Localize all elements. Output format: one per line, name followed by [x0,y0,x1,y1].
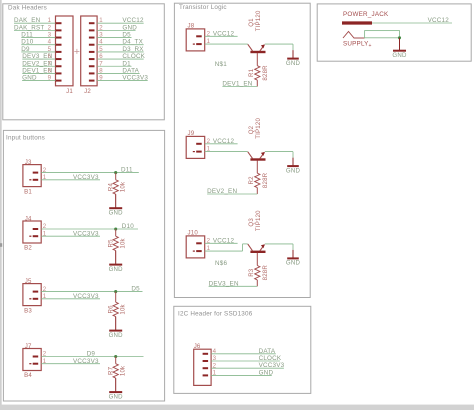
net label DATA [259,348,276,355]
wire VCC3V3 from B1 pin 1 [41,179,100,181]
wire net D9 to J1 pin 5 [21,51,55,53]
svg-text:7: 7 [99,60,103,67]
net label DAK_RST [14,24,44,31]
junction on net D11 [114,171,117,174]
svg-text:DAK_RST: DAK_RST [14,24,44,31]
svg-text:Q1: Q1 [248,18,255,27]
net label D1 [122,60,131,67]
svg-text:828R: 828R [262,65,269,81]
ground below R6 [109,317,124,339]
svg-text:SUPPLY: SUPPLY [343,41,369,48]
svg-text:VCC3V3: VCC3V3 [122,75,148,82]
svg-text:VCC3V3: VCC3V3 [73,174,99,181]
B3 pin number 2 [43,286,47,293]
wire net D11 from B1 pin 2 [41,172,139,174]
connector J6 (4-pin I2C header) [194,343,211,385]
svg-text:D11: D11 [121,166,133,173]
J1 pin number 9 [48,75,52,82]
svg-text:VCC12: VCC12 [213,31,235,38]
frame: POWER_JACK section [317,4,471,61]
svg-text:GND: GND [286,60,301,67]
svg-text:Q3: Q3 [248,218,255,227]
J8 pin number 1 [207,38,211,45]
J1 pin number 7 [48,60,52,67]
connector J9 (2-pin) [186,130,205,158]
J1 pin number 4 [48,39,52,46]
net label VCC12 [213,31,235,38]
J2 pin number 5 [99,46,103,53]
J6 pin number 1 [213,370,217,377]
svg-text:VCC3V3: VCC3V3 [259,362,285,369]
svg-text:GND: GND [22,75,37,82]
svg-text:N$6: N$6 [215,260,227,267]
svg-text:B1: B1 [24,188,32,195]
pushbutton B2 (connector J4) [23,215,41,251]
net label VCC3V3 [73,174,99,181]
power jack J11 name [343,11,389,18]
svg-text:D10: D10 [122,223,134,230]
net name N$1 [215,61,227,68]
svg-text:2: 2 [48,24,52,31]
wire net DEV2_EN to J1 pin 7 [22,65,55,67]
frame: Transistor Logic section [174,3,310,297]
net label VCC3V3 [259,362,285,369]
junction on net D5 [114,290,117,293]
svg-text:GND: GND [109,393,124,400]
svg-text:9: 9 [48,75,52,82]
connector J1 (9-pin header) [55,16,73,95]
wire from J9 pin 1 to Q2 collector [205,151,248,153]
left gray strip [0,0,2,410]
connector J8 (2-pin) [186,23,205,51]
J2 pin number 3 [99,32,103,39]
svg-text:DEV3_EN: DEV3_EN [209,280,239,287]
B2 pin number 2 [43,223,47,230]
wire Q3 emitter to ground [265,244,293,250]
wire net GND from J6 [211,374,272,376]
wire net DEV3_EN [209,285,258,287]
J1 pin number 1 [48,17,52,24]
svg-text:10k: 10k [119,303,126,314]
wire net DEV1_EN to J1 pin 8 [22,72,55,74]
net label DEV3_EN [22,53,52,60]
J2 pin number 1 [99,17,103,24]
svg-text:4: 4 [48,39,52,46]
wire VCC12 from J8 pin 2 [205,35,238,37]
connector J2 (9-pin header) [81,16,97,95]
svg-text:DAK_EN: DAK_EN [14,17,41,24]
svg-text:DATA: DATA [259,348,276,355]
ground at Q1 emitter [286,50,301,67]
net label D9 [21,46,30,53]
wire VCC3V3 from B2 pin 1 [41,235,100,237]
svg-text:7: 7 [48,60,52,67]
wire net D11 to J1 pin 3 [21,37,55,39]
net label D9 [87,350,96,357]
net label VCC3V3 [73,230,99,237]
wire net DAK_RST to J1 pin 2 [14,29,56,31]
svg-text:TIP120: TIP120 [255,210,262,231]
frame: Input buttons section [3,130,164,401]
svg-text:D3_RX: D3_RX [122,46,144,53]
J2 pin number 2 [99,24,103,31]
origin cross between J1 and J2 [74,49,79,54]
svg-text:R2: R2 [248,176,255,185]
svg-text:Input buttons: Input buttons [6,135,45,142]
svg-text:R4: R4 [108,183,115,192]
svg-text:Q2: Q2 [248,125,255,134]
J1 pin number 3 [48,32,52,39]
svg-text:GND: GND [109,266,124,273]
net label CLOCK [122,53,145,60]
svg-text:1: 1 [48,17,52,24]
svg-text:10k: 10k [119,181,126,192]
svg-text:VCC12: VCC12 [213,138,235,145]
net label VCC3V3 [122,75,148,82]
svg-text:4: 4 [99,39,103,46]
B4 pin number 1 [43,358,47,365]
svg-text:N$1: N$1 [215,61,227,68]
net label DEV1_EN [22,67,52,74]
wire VCC12 from J10 pin 2 [205,242,238,244]
net label DATA [122,67,139,74]
ground at Q3 emitter [286,250,301,267]
J8 pin number 2 [207,31,211,38]
resistor R4 10k [108,173,127,195]
resistor R6 10k [108,292,127,317]
net label D11 [121,166,133,173]
net label VCC12 [122,17,144,24]
svg-text:DEV2_EN: DEV2_EN [207,188,237,195]
B1 pin number 2 [43,167,47,174]
net name N$6 [215,260,227,267]
svg-text:D9: D9 [87,350,96,357]
J1 pin number 6 [48,53,52,60]
svg-text:2: 2 [99,24,103,31]
svg-text:R7: R7 [108,366,115,375]
J1 pin number 5 [48,46,52,53]
svg-text:CLOCK: CLOCK [259,355,282,362]
wire net DEV1_EN [222,86,257,88]
B3 pin number 1 [43,293,47,300]
svg-text:TIP120: TIP120 [255,118,262,139]
J2 pin number 8 [99,67,103,74]
svg-text:GND: GND [109,332,124,339]
J2 pin number 4 [99,39,103,46]
svg-text:CLOCK: CLOCK [122,53,145,60]
wire net VCC3V3 from J6 [211,367,284,369]
frame: Dak Headers section [3,4,165,120]
wire from J10 pin 1 to Q3 collector (with jog) [205,244,248,251]
wire net D3_RX from J2 pin 5 [97,51,144,53]
svg-text:B3: B3 [24,307,32,314]
net label GND [259,369,274,376]
ground below R7 [109,378,124,400]
pushbutton B1 (connector J3) [23,159,41,195]
net label D10 [21,39,33,46]
net label VCC12 [428,17,450,24]
svg-text:DEV1_EN: DEV1_EN [222,81,252,88]
wire net VCC3V3 from J2 pin 9 [97,80,148,82]
wire net GND to J1 pin 9 [22,80,55,82]
transistor Q1 TIP120 [248,10,266,52]
svg-text:D5: D5 [131,285,140,292]
wire from J8 pin 1 to Q1 collector [205,43,248,45]
B4 pin number 2 [43,351,47,358]
B2 pin number 1 [43,230,47,237]
svg-text:10k: 10k [119,237,126,248]
net label DAK_EN [14,17,41,24]
net label D10 [122,223,134,230]
svg-text:D10: D10 [21,39,33,46]
svg-text:Transistor Logic: Transistor Logic [179,4,227,11]
svg-text:828R: 828R [262,172,269,188]
svg-text:D4_TX: D4_TX [122,39,143,46]
net label DEV1_EN [222,81,252,88]
ground below R4 [109,194,124,216]
net label VCC12 [213,138,235,145]
net label GND [122,24,137,31]
svg-text:J1: J1 [66,88,73,95]
svg-text:VCC12: VCC12 [428,17,450,24]
wire VCC12 from J9 pin 2 [205,143,238,145]
svg-text:GND: GND [392,52,407,59]
svg-text:GND: GND [259,369,274,376]
svg-text:R5: R5 [108,239,115,248]
resistor R1 828R [248,53,269,87]
net label VCC12 [213,238,235,245]
resistor R7 10k [108,357,127,379]
net label VCC3V3 [73,293,99,300]
net label D3_RX [122,46,144,53]
svg-text:R3: R3 [248,268,255,277]
wire VCC3V3 from B4 pin 1 [41,363,100,365]
svg-text:GND: GND [286,167,301,174]
svg-text:B4: B4 [24,372,32,379]
svg-text:J2: J2 [84,88,91,95]
J2 pin number 9 [99,75,103,82]
wire Q1 emitter to ground [265,44,293,50]
J9 pin number 2 [207,138,211,145]
wire net DAK_EN to J1 pin 1 [14,22,56,24]
wire net D1 from J2 pin 7 [97,65,131,67]
ground at Q2 emitter [286,158,301,175]
connector J10 (2-pin) [186,230,205,258]
svg-text:GND: GND [122,24,137,31]
svg-text:POWER_JACK: POWER_JACK [343,11,389,18]
svg-text:5: 5 [99,46,103,53]
svg-text:6: 6 [48,53,52,60]
pushbutton B4 (connector J7) [23,343,41,379]
svg-text:8: 8 [99,67,103,74]
J2 pin number 6 [99,53,103,60]
svg-text:VCC3V3: VCC3V3 [73,358,99,365]
J10 pin number 1 [207,245,211,252]
svg-text:VCC12: VCC12 [122,17,144,24]
svg-text:GND: GND [109,209,124,216]
svg-text:GND: GND [286,260,301,267]
wire net DATA from J6 [211,353,276,355]
ground at power jack [392,38,407,59]
svg-text:Dak Headers: Dak Headers [8,5,47,12]
B1 pin number 1 [43,174,47,181]
wire net D10 to J1 pin 4 [21,44,55,46]
svg-text:I2C Header for SSD1306: I2C Header for SSD1306 [178,310,253,317]
net label VCC3V3 [73,358,99,365]
transistor Q2 TIP120 [248,118,266,160]
junction at ground node [398,36,401,39]
wire net VCC12 from J2 pin 1 [97,22,144,24]
svg-text:R1: R1 [248,68,255,77]
resistor R5 10k [108,229,127,251]
J1 pin number 2 [48,24,52,31]
ground below R5 [109,251,124,273]
bottom gray strip [0,405,474,410]
net label DEV3_EN [209,280,239,287]
wire net D10 from B2 pin 2 [41,228,138,230]
svg-text:TIP120: TIP120 [255,10,262,31]
svg-text:R6: R6 [108,305,115,314]
svg-text:3: 3 [99,32,103,39]
svg-text:VCC3V3: VCC3V3 [73,230,99,237]
svg-text:1: 1 [99,17,103,24]
net label DEV2_EN [207,188,237,195]
wire net D5 from J2 pin 3 [97,37,131,39]
net label D11 [21,32,33,39]
svg-text:3: 3 [48,32,52,39]
J9 pin number 1 [207,146,211,153]
J10 pin number 2 [207,238,211,245]
net label CLOCK [259,355,282,362]
wire VCC3V3 from B3 pin 1 [41,298,100,300]
svg-text:5: 5 [48,46,52,53]
wire Q2 emitter to ground [265,152,293,158]
transistor Q3 TIP120 [248,210,266,252]
wire loop jack to ground node [365,31,400,38]
resistor R3 828R [248,253,269,286]
svg-text:D9: D9 [21,46,30,53]
pushbutton B3 (connector J5) [23,278,41,314]
wire net D4_TX from J2 pin 4 [97,44,144,46]
wire net CLOCK from J2 pin 6 [97,58,144,60]
net label GND [22,75,37,82]
svg-text:VCC12: VCC12 [213,238,235,245]
J6 pin number 4 [213,348,217,355]
J2 pin number 7 [99,60,103,67]
net label D4_TX [122,39,143,46]
wire net VCC12 from jack [372,22,452,24]
J6 pin number 2 [213,362,217,369]
svg-text:9: 9 [99,75,103,82]
svg-text:D11: D11 [21,32,33,39]
svg-text:VCC3V3: VCC3V3 [73,293,99,300]
J6 pin number 3 [213,355,217,362]
net label D5 [122,32,131,39]
J1 pin number 8 [48,67,52,74]
wire net D9 from B4 pin 2 [41,356,143,358]
junction on net D9 [114,355,117,358]
svg-text:8: 8 [48,67,52,74]
power jack spring contact [343,32,365,39]
wire net DEV2_EN [207,193,257,195]
svg-text:10k: 10k [119,365,126,376]
svg-text:828R: 828R [262,265,269,281]
svg-text:D1: D1 [122,60,131,67]
wire net GND from J2 pin 2 [97,29,135,31]
scrollbar tick on left edge [0,243,2,247]
svg-text:+: + [369,43,372,49]
net label DEV2_EN [22,60,52,67]
wire net DEV3_EN to J1 pin 6 [22,58,55,60]
svg-text:6: 6 [99,53,103,60]
wire net D5 from B3 pin 2 [41,291,142,293]
resistor R2 828R [248,161,269,195]
wire net CLOCK from J6 [211,360,280,362]
svg-text:DATA: DATA [122,67,139,74]
frame: I2C Header section [174,306,311,393]
net label D5 [131,285,140,292]
svg-text:D5: D5 [122,32,131,39]
power jack SUPPLY label [343,41,372,50]
wire net DATA from J2 pin 8 [97,72,140,74]
junction on net D10 [114,227,117,230]
power jack sleeve bar [342,21,372,24]
svg-text:B2: B2 [24,245,32,252]
